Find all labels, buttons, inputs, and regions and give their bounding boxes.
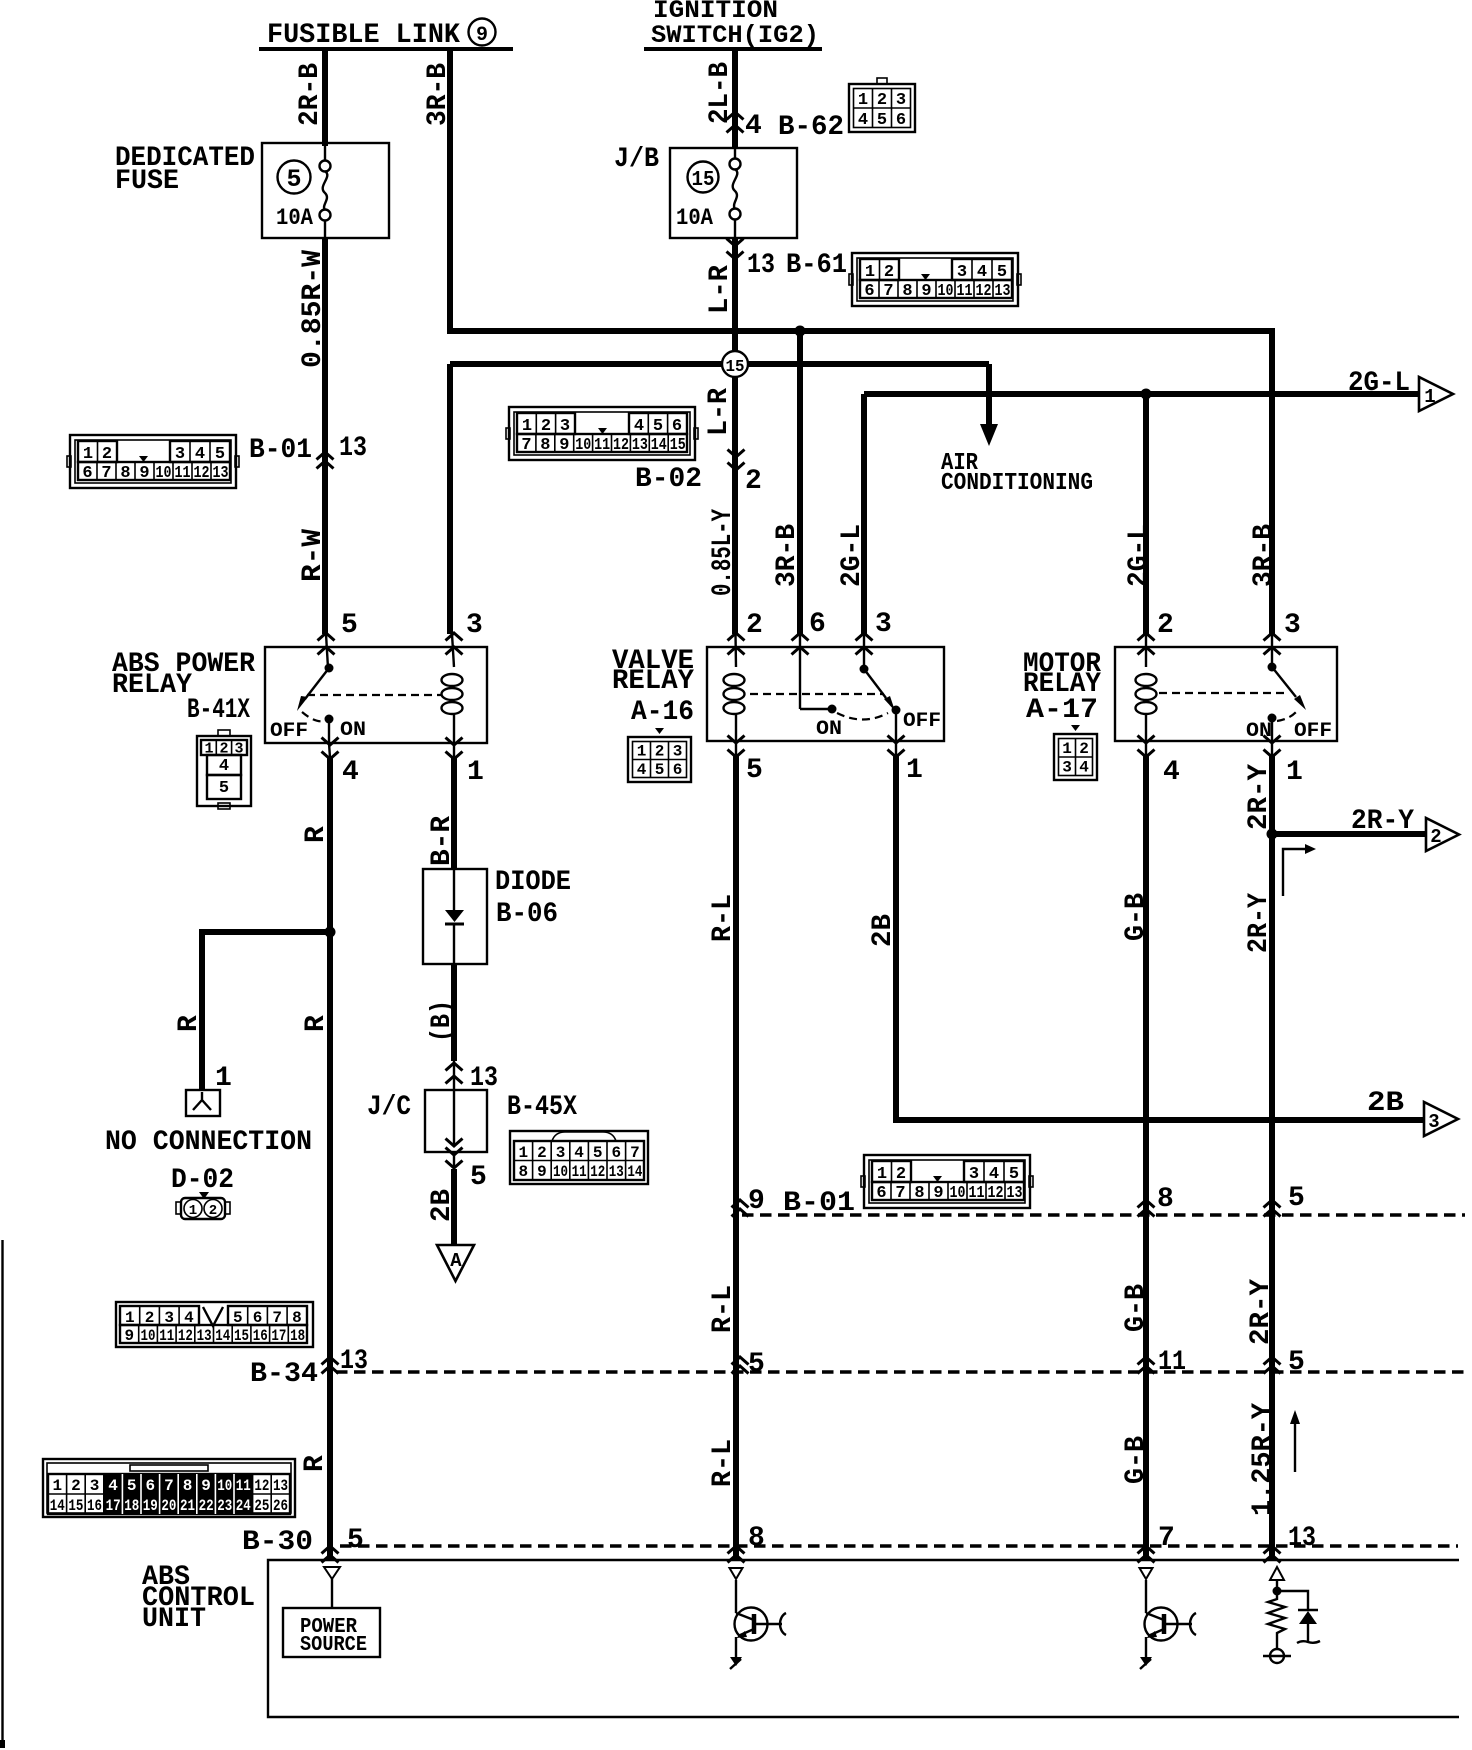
svg-text:21: 21 xyxy=(180,1497,195,1515)
svg-text:RELAY: RELAY xyxy=(112,670,192,701)
svg-text:5: 5 xyxy=(593,1144,603,1162)
relay VALVE RELAY A-16 xyxy=(612,609,944,786)
svg-text:10: 10 xyxy=(553,1163,568,1181)
fuse J/B 15 10A xyxy=(614,144,797,238)
svg-text:B-34: B-34 xyxy=(250,1359,318,1390)
svg-text:R-L: R-L xyxy=(708,894,739,942)
wire 2L-B ignition switch to J/B xyxy=(732,49,738,148)
svg-text:20: 20 xyxy=(161,1497,176,1515)
svg-text:R: R xyxy=(300,1455,331,1472)
svg-text:RELAY: RELAY xyxy=(612,666,694,697)
svg-text:1: 1 xyxy=(906,755,923,786)
dashed line B-34 row xyxy=(336,1370,1465,1373)
svg-text:B-41X: B-41X xyxy=(187,695,250,726)
coil xyxy=(1145,634,1147,667)
svg-text:11: 11 xyxy=(236,1477,251,1495)
svg-text:R-L: R-L xyxy=(708,1439,739,1487)
svg-text:8: 8 xyxy=(540,436,550,455)
page border left xyxy=(1,1240,3,1744)
svg-text:9: 9 xyxy=(201,1477,211,1495)
transistor Q1 (valve drive) xyxy=(730,1568,787,1669)
svg-text:15: 15 xyxy=(234,1327,249,1345)
connector crossing B-02 pin 2 xyxy=(728,450,745,458)
svg-text:2: 2 xyxy=(541,417,551,436)
svg-text:4: 4 xyxy=(342,757,359,788)
wire R-L from valve relay pin 5 to ABS control unit xyxy=(735,741,737,757)
connector B-45X xyxy=(510,1131,648,1184)
node arrow terminal 3 xyxy=(1424,1102,1458,1136)
svg-text:R: R xyxy=(301,1015,332,1032)
svg-text:4: 4 xyxy=(108,1477,118,1495)
svg-text:1: 1 xyxy=(1062,740,1072,758)
svg-text:11: 11 xyxy=(572,1163,587,1181)
svg-text:2: 2 xyxy=(71,1477,81,1495)
svg-text:0.85L-Y: 0.85L-Y xyxy=(708,509,739,596)
wire G-B from motor relay pin 4 to ABS control unit xyxy=(1145,741,1147,757)
wire 2B to ground triangle A xyxy=(453,1152,455,1170)
dashed link xyxy=(750,693,884,695)
svg-text:8: 8 xyxy=(292,1309,302,1327)
junction block J/C B-45X xyxy=(446,1063,463,1071)
svg-text:18: 18 xyxy=(124,1497,139,1515)
svg-text:9: 9 xyxy=(748,1186,765,1217)
svg-text:12: 12 xyxy=(590,1163,605,1181)
wire no-connection stub xyxy=(202,932,330,1090)
connector B-30 xyxy=(43,1459,295,1517)
svg-text:5: 5 xyxy=(347,1525,364,1556)
direction indicator arrow (lower) xyxy=(1294,1420,1296,1472)
svg-text:2R-Y: 2R-Y xyxy=(1351,806,1414,837)
svg-text:ON: ON xyxy=(340,719,366,742)
wire direction indicator arrow xyxy=(1283,849,1308,896)
svg-text:9: 9 xyxy=(559,436,569,455)
svg-text:3: 3 xyxy=(466,610,483,641)
svg-text:2: 2 xyxy=(1079,740,1089,758)
svg-text:14: 14 xyxy=(627,1163,642,1181)
svg-text:1: 1 xyxy=(189,1203,197,1219)
svg-text:4: 4 xyxy=(745,111,762,142)
svg-text:2: 2 xyxy=(1157,610,1174,641)
svg-text:B-06: B-06 xyxy=(496,899,558,930)
svg-text:0.85R-W: 0.85R-W xyxy=(298,250,329,368)
svg-text:2: 2 xyxy=(1430,826,1441,848)
svg-text:2: 2 xyxy=(746,610,763,641)
svg-text:12: 12 xyxy=(178,1327,193,1345)
diode B-06 xyxy=(423,869,487,964)
wire 0.85R-W below dedicated fuse to ABS relay pin 5 xyxy=(322,238,328,634)
connector B-62 xyxy=(849,78,915,132)
connector B-02 xyxy=(506,407,698,460)
svg-text:B-02: B-02 xyxy=(635,464,702,495)
wire horizontal through circled 15 to air conditioning corner xyxy=(450,361,989,367)
svg-text:10: 10 xyxy=(575,436,591,455)
svg-text:18: 18 xyxy=(290,1327,305,1345)
svg-text:2R-B: 2R-B xyxy=(295,63,326,126)
svg-text:4: 4 xyxy=(184,1309,194,1327)
dashed link to coil xyxy=(307,694,441,696)
wire 2R-Y branch to arrow 2 xyxy=(1272,831,1426,837)
svg-text:5: 5 xyxy=(219,779,229,798)
svg-text:3: 3 xyxy=(164,1309,174,1327)
node junction dot motor relay pin 2 branch xyxy=(1141,389,1152,400)
svg-text:15: 15 xyxy=(670,436,686,455)
relay ABS POWER RELAY B-41X xyxy=(112,610,487,788)
svg-text:SOURCE: SOURCE xyxy=(300,1634,367,1657)
svg-text:7: 7 xyxy=(272,1309,282,1327)
dashed line B-30 row xyxy=(340,1544,1458,1547)
svg-text:2: 2 xyxy=(537,1144,547,1162)
svg-text:14: 14 xyxy=(50,1497,65,1515)
node junction to no-connection stub xyxy=(325,927,336,938)
connector B-01 (upper) xyxy=(67,435,239,488)
svg-text:(B): (B) xyxy=(427,1000,458,1042)
svg-text:12: 12 xyxy=(254,1477,269,1495)
wire 2R-B from fusible link to dedicated fuse xyxy=(322,49,328,146)
svg-text:8: 8 xyxy=(1157,1184,1174,1215)
svg-text:10: 10 xyxy=(141,1327,156,1345)
svg-text:11: 11 xyxy=(594,436,610,455)
svg-text:SWITCH(IG2): SWITCH(IG2) xyxy=(651,21,819,50)
svg-text:FUSE: FUSE xyxy=(115,166,179,197)
svg-text:11: 11 xyxy=(159,1327,174,1345)
svg-text:5: 5 xyxy=(655,761,665,779)
svg-text:6: 6 xyxy=(896,111,906,130)
svg-text:13: 13 xyxy=(339,433,367,464)
svg-text:1: 1 xyxy=(1286,757,1303,788)
svg-text:R: R xyxy=(174,1015,205,1032)
diode D1 xyxy=(1298,1609,1318,1611)
svg-text:L-R: L-R xyxy=(704,388,735,436)
svg-text:2: 2 xyxy=(745,466,762,497)
svg-text:5: 5 xyxy=(877,111,887,130)
svg-text:4: 4 xyxy=(574,1144,584,1162)
svg-text:17: 17 xyxy=(271,1327,286,1345)
svg-text:4: 4 xyxy=(637,761,647,779)
svg-text:8: 8 xyxy=(748,1523,765,1554)
svg-text:R-L: R-L xyxy=(708,1285,739,1333)
svg-text:G-B: G-B xyxy=(1121,1436,1152,1484)
svg-text:2B: 2B xyxy=(868,914,899,947)
svg-text:4: 4 xyxy=(858,111,868,130)
svg-text:7: 7 xyxy=(164,1477,174,1495)
svg-text:6: 6 xyxy=(253,1309,263,1327)
svg-text:1: 1 xyxy=(52,1477,62,1495)
svg-text:3: 3 xyxy=(560,417,570,436)
node arrow terminal 1 xyxy=(1419,377,1453,411)
svg-text:16: 16 xyxy=(87,1497,102,1515)
wire L-R from J/B to circled 15 junction xyxy=(732,238,738,634)
svg-text:5: 5 xyxy=(746,755,763,786)
svg-text:5: 5 xyxy=(286,165,301,194)
svg-text:DIODE: DIODE xyxy=(495,867,571,898)
svg-text:3: 3 xyxy=(1284,610,1301,641)
svg-text:B-01: B-01 xyxy=(783,1188,855,1219)
svg-text:2: 2 xyxy=(877,91,887,110)
svg-text:4: 4 xyxy=(1079,759,1089,777)
svg-text:1: 1 xyxy=(858,91,868,110)
svg-text:B-01: B-01 xyxy=(249,435,312,466)
connector B-61 xyxy=(849,253,1021,306)
svg-text:2G-L: 2G-L xyxy=(1124,524,1155,587)
wire 2B from valve relay pin 1 to arrow 3 xyxy=(895,741,897,757)
svg-text:3: 3 xyxy=(896,91,906,110)
node FUSIBLE LINK 9 header xyxy=(259,19,513,52)
svg-text:A-16: A-16 xyxy=(631,697,694,728)
svg-text:B-45X: B-45X xyxy=(507,1092,577,1123)
wire 3R-B branch down to valve relay pin 6 xyxy=(797,331,803,634)
svg-text:3R-B: 3R-B xyxy=(772,524,803,587)
svg-text:L-R: L-R xyxy=(705,265,736,314)
svg-text:6: 6 xyxy=(673,761,683,779)
dashed link xyxy=(1159,692,1288,694)
svg-text:14: 14 xyxy=(651,436,667,455)
svg-text:9: 9 xyxy=(537,1163,547,1181)
svg-text:4: 4 xyxy=(1163,757,1180,788)
svg-text:15: 15 xyxy=(68,1497,83,1515)
node arrow terminal 2 xyxy=(1426,818,1459,851)
svg-text:2R-Y: 2R-Y xyxy=(1246,1279,1277,1345)
connector B-34 xyxy=(116,1302,313,1347)
svg-text:R-W: R-W xyxy=(298,529,329,582)
wire 2G-L horizontal to arrow 1 xyxy=(864,391,1419,397)
svg-text:FUSIBLE LINK: FUSIBLE LINK xyxy=(267,20,460,51)
svg-text:9: 9 xyxy=(476,24,488,47)
svg-text:2: 2 xyxy=(209,1203,217,1219)
coil xyxy=(724,674,745,686)
power source input terminal xyxy=(324,1567,340,1579)
connector B-01 (lower) xyxy=(861,1155,1033,1208)
svg-text:3: 3 xyxy=(875,609,892,640)
connector A-17 xyxy=(1054,725,1097,780)
connector crossing B-61 pin 13 xyxy=(727,239,744,247)
svg-text:2G-L: 2G-L xyxy=(837,524,868,587)
svg-text:1: 1 xyxy=(125,1309,135,1327)
connector crossing B-62 pin 4 xyxy=(727,112,744,120)
svg-text:8: 8 xyxy=(518,1163,528,1181)
connector A-16 xyxy=(628,728,691,782)
svg-text:G-B: G-B xyxy=(1121,893,1152,941)
svg-text:A-17: A-17 xyxy=(1026,695,1098,726)
node junction dot 2R-Y branch xyxy=(1267,829,1278,840)
svg-text:NO CONNECTION: NO CONNECTION xyxy=(105,1127,312,1158)
svg-text:23: 23 xyxy=(217,1497,232,1515)
svg-text:2G-L: 2G-L xyxy=(1348,368,1410,399)
svg-text:15: 15 xyxy=(692,169,715,192)
svg-text:6: 6 xyxy=(611,1144,621,1162)
svg-text:1: 1 xyxy=(467,757,484,788)
svg-text:1: 1 xyxy=(522,417,532,436)
svg-text:2B: 2B xyxy=(427,1189,458,1222)
svg-text:2R-Y: 2R-Y xyxy=(1244,764,1275,830)
switch contact xyxy=(326,634,328,668)
svg-text:3: 3 xyxy=(556,1144,566,1162)
svg-text:G-B: G-B xyxy=(1121,1284,1152,1332)
svg-text:13: 13 xyxy=(747,250,775,281)
svg-text:2R-Y: 2R-Y xyxy=(1244,893,1275,953)
svg-text:B-30: B-30 xyxy=(242,1527,313,1558)
svg-text:14: 14 xyxy=(215,1327,230,1345)
svg-text:24: 24 xyxy=(236,1497,251,1515)
svg-text:13: 13 xyxy=(340,1346,368,1377)
svg-text:OFF: OFF xyxy=(903,710,941,733)
svg-text:7: 7 xyxy=(521,436,531,455)
svg-text:1: 1 xyxy=(637,743,647,761)
svg-text:4: 4 xyxy=(634,417,644,436)
relay MOTOR RELAY A-17 xyxy=(1023,610,1337,788)
wire 3R-B from fusible link down and right to motor relay pin 3 xyxy=(450,49,1272,634)
svg-text:26: 26 xyxy=(273,1497,288,1515)
svg-text:12: 12 xyxy=(613,436,629,455)
svg-text:19: 19 xyxy=(143,1497,158,1515)
svg-text:22: 22 xyxy=(199,1497,214,1515)
svg-text:6: 6 xyxy=(809,609,826,640)
resistor + diode input (2R-Y sense) xyxy=(1263,1567,1320,1663)
svg-text:5: 5 xyxy=(233,1309,243,1327)
svg-text:13: 13 xyxy=(1288,1523,1316,1554)
box POWER SOURCE xyxy=(283,1608,380,1657)
connector D-02 xyxy=(176,1192,230,1219)
svg-text:3R-B: 3R-B xyxy=(423,63,454,126)
wire 2R-Y from motor relay pin 1 down to ABS control unit xyxy=(1271,741,1273,757)
svg-text:D-02: D-02 xyxy=(171,1165,234,1196)
svg-text:13: 13 xyxy=(609,1163,624,1181)
svg-text:2: 2 xyxy=(145,1309,155,1327)
node circled 15 junction xyxy=(722,351,748,377)
wire B-R from ABS relay pin 1 to diode xyxy=(453,743,455,758)
svg-text:3: 3 xyxy=(1062,759,1072,777)
svg-text:15: 15 xyxy=(726,358,745,377)
svg-text:OFF: OFF xyxy=(1294,720,1332,743)
coil xyxy=(442,674,463,686)
svg-text:B-61: B-61 xyxy=(786,250,847,281)
svg-text:B-62: B-62 xyxy=(778,112,844,143)
wire arrow down to AIR CONDITIONING xyxy=(986,364,992,430)
svg-text:5: 5 xyxy=(470,1162,487,1193)
svg-text:2: 2 xyxy=(655,743,665,761)
node IGNITION SWITCH (IG2) header xyxy=(644,0,822,50)
svg-text:16: 16 xyxy=(253,1327,268,1345)
pin 6 to ON contact xyxy=(799,634,801,709)
wire R from ABS relay pin 4 down to ABS control unit xyxy=(329,743,330,758)
svg-text:CONDITIONING: CONDITIONING xyxy=(941,470,1093,497)
svg-text:A: A xyxy=(450,1250,462,1272)
switch arm pin 3 xyxy=(1271,634,1273,667)
svg-text:2B: 2B xyxy=(1367,1088,1404,1119)
connector crossing B-01 pin 13 xyxy=(317,452,334,460)
svg-text:7: 7 xyxy=(630,1144,640,1162)
svg-text:5: 5 xyxy=(127,1477,137,1495)
svg-text:10A: 10A xyxy=(276,205,313,231)
svg-text:8: 8 xyxy=(183,1477,193,1495)
svg-text:5: 5 xyxy=(1288,1183,1305,1214)
connector B-41X xyxy=(197,730,251,809)
svg-text:3R-B: 3R-B xyxy=(1249,524,1280,587)
svg-text:13: 13 xyxy=(632,436,648,455)
svg-text:3: 3 xyxy=(90,1477,100,1495)
svg-text:9: 9 xyxy=(124,1327,134,1345)
svg-text:J/B: J/B xyxy=(614,144,659,175)
fuse DEDICATED FUSE 5 10A xyxy=(115,143,389,238)
svg-text:UNIT: UNIT xyxy=(142,1604,206,1635)
ground terminal A xyxy=(437,1245,474,1281)
svg-text:1: 1 xyxy=(518,1144,528,1162)
node junction dot on 3R-B line at valve relay branch xyxy=(795,326,806,337)
svg-text:5: 5 xyxy=(1288,1347,1305,1378)
svg-text:6: 6 xyxy=(145,1477,155,1495)
svg-text:10: 10 xyxy=(217,1477,232,1495)
svg-text:OFF: OFF xyxy=(270,720,308,743)
svg-text:6: 6 xyxy=(672,417,682,436)
svg-text:7: 7 xyxy=(1158,1523,1175,1554)
svg-text:4: 4 xyxy=(219,757,229,776)
svg-text:5: 5 xyxy=(748,1349,765,1380)
switch arm pin 3 xyxy=(863,634,865,669)
svg-text:13: 13 xyxy=(197,1327,212,1345)
svg-text:B-R: B-R xyxy=(427,816,458,866)
svg-text:5: 5 xyxy=(341,610,358,641)
dashed line B-01 row xyxy=(742,1213,1465,1216)
transistor Q2 (motor drive) xyxy=(1140,1568,1197,1669)
svg-text:3: 3 xyxy=(673,743,683,761)
svg-text:3: 3 xyxy=(1428,1111,1439,1133)
svg-text:ON: ON xyxy=(816,718,842,741)
svg-text:R: R xyxy=(301,826,332,843)
resistor R1 xyxy=(1268,1591,1285,1649)
svg-text:11: 11 xyxy=(1158,1347,1186,1378)
svg-text:J/C: J/C xyxy=(367,1092,411,1123)
svg-text:1.25R-Y: 1.25R-Y xyxy=(1248,1403,1279,1516)
svg-text:13: 13 xyxy=(273,1477,288,1495)
svg-text:10A: 10A xyxy=(676,205,713,231)
svg-text:25: 25 xyxy=(254,1497,269,1515)
svg-text:1: 1 xyxy=(1424,386,1435,408)
svg-text:17: 17 xyxy=(106,1497,121,1515)
wire (B) below diode to J/C xyxy=(451,964,457,1061)
svg-text:5: 5 xyxy=(653,417,663,436)
